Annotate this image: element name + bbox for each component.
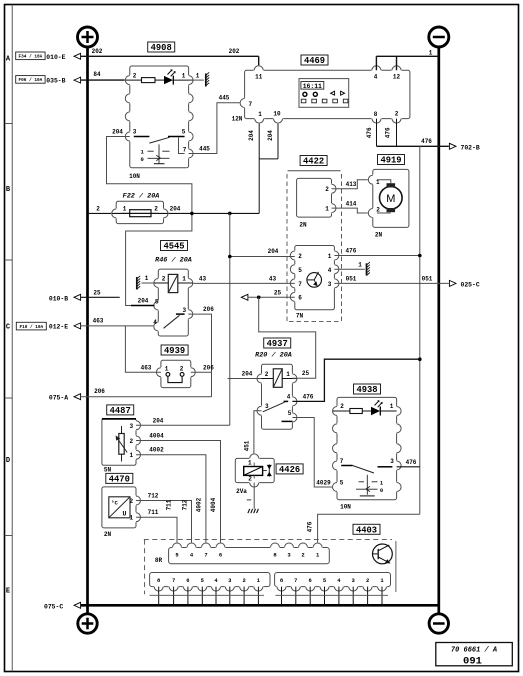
plus bus wire [86,47,89,615]
svg-text:445: 445 [199,145,210,152]
svg-text:C: C [6,324,10,332]
svg-text:204: 204 [267,130,274,141]
svg-text:2N: 2N [375,231,383,238]
svg-text:1: 1 [129,452,133,459]
svg-text:010-E: 010-E [46,54,65,61]
arrow 025-C [449,280,456,286]
svg-text:4: 4 [287,394,291,401]
wire 204 main run [192,212,259,214]
4938 internal resistor [333,410,350,412]
svg-text:F06 / 10A: F06 / 10A [19,78,43,83]
svg-text:6: 6 [219,552,222,559]
4545 coil [154,282,168,284]
4937 box [262,364,293,429]
svg-text:1: 1 [145,275,149,282]
svg-text:010-B: 010-B [49,295,68,302]
4545 switch blade [164,315,180,328]
svg-text:204: 204 [170,206,181,213]
svg-text:2Va: 2Va [236,488,247,495]
wire 476 vertical [419,146,421,514]
component 4937 label [264,338,291,348]
4919 motor [380,187,403,210]
wire 4002 [136,455,206,548]
wire 4029 from 4937 pin5 [292,418,337,488]
svg-text:4937: 4937 [267,339,288,349]
svg-text:711: 711 [166,499,173,510]
component 4545 label [161,241,188,251]
svg-text:F22 / 20A: F22 / 20A [123,192,160,200]
svg-text:2: 2 [298,253,302,260]
svg-text:4002: 4002 [149,447,164,454]
wire 476 from 4938 pin3 [397,466,420,468]
svg-text:5N: 5N [104,467,112,474]
minus terminal bottom [429,614,448,633]
svg-text:F34 / 10A: F34 / 10A [19,55,43,60]
svg-text:43: 43 [269,275,277,282]
ground bus wire [81,604,439,607]
4426 ground wire [253,483,255,509]
svg-text:202: 202 [92,48,103,55]
wire 4004 [136,441,221,548]
wire 451 from 4937 pin3 [254,411,262,459]
svg-text:2: 2 [154,206,158,213]
svg-text:476: 476 [421,138,432,145]
ground wires row2 left [158,587,160,606]
svg-text:6: 6 [309,577,312,584]
svg-text:5: 5 [340,480,344,487]
4939 box [161,360,191,387]
svg-text:6: 6 [186,577,189,584]
arrow 012-E [74,323,81,329]
wire 25 to 4937 pin1 [259,297,316,378]
svg-text:7: 7 [204,552,207,559]
svg-text:2: 2 [340,403,344,410]
wire 206 to 4939 pin2 [191,371,212,373]
svg-text:4: 4 [328,267,332,274]
svg-text:2: 2 [395,110,399,117]
wire 476 pins 8,2 down [377,119,397,147]
wire 445 [189,103,245,154]
wire 43 [188,282,294,284]
svg-text:5: 5 [298,267,302,274]
4939 link [166,373,170,377]
wire 204 vertical drop [229,213,231,425]
svg-text:°C: °C [111,500,118,507]
svg-text:4908: 4908 [151,43,172,53]
minus bus wire [437,47,440,615]
svg-text:075-C: 075-C [44,603,63,610]
4545 contact stub pin3 [176,313,185,315]
4422 boundary [288,170,341,172]
4403 row2 connector left [150,573,270,587]
fuse tag F06/10A [16,76,45,84]
title block [436,643,513,666]
4908 switch blade [149,137,169,143]
arrow 075-C [74,602,81,608]
4403 boundary [144,539,392,541]
svg-text:4426: 4426 [279,465,300,475]
svg-text:4029: 4029 [316,480,331,487]
svg-text:4545: 4545 [163,242,184,252]
svg-text:463: 463 [141,364,152,371]
4403 row1 connector [169,548,330,564]
wire 476 elbow to 4403 [318,514,420,547]
4937 contact 4 stub [284,400,289,402]
wire 25 stub [81,296,120,298]
component 4487 label [107,405,134,415]
wire 414 [332,208,373,213]
ground wires row2 right [281,587,283,606]
plus terminal bottom [78,614,97,633]
svg-text:476: 476 [406,459,417,466]
svg-text:4470: 4470 [109,474,130,484]
svg-text:4: 4 [374,74,378,81]
4470 symbol [109,497,130,518]
svg-text:84: 84 [93,71,101,78]
4426 box [235,458,274,482]
svg-text:051: 051 [346,275,357,282]
svg-text:0: 0 [380,487,383,494]
4938 switch blade [353,466,375,474]
wire 711 [136,517,177,547]
svg-text:16:11: 16:11 [303,83,322,90]
svg-text:70 6661 / A: 70 6661 / A [451,646,497,654]
svg-text:2: 2 [248,476,252,483]
svg-text:4938: 4938 [356,385,377,395]
svg-text:4469: 4469 [304,56,325,66]
svg-text:2N: 2N [299,221,307,228]
wire 476 to 702-B [377,145,449,147]
svg-text:3: 3 [328,281,332,288]
svg-text:D: D [6,457,10,465]
svg-text:202: 202 [229,48,240,55]
plus terminal top [78,27,98,47]
4908 pin1 screen wire [189,79,204,81]
svg-text:451: 451 [244,440,251,451]
4937 contact 5 stub [282,420,293,422]
4487 potentiometer symbol [121,426,123,434]
fuse tag F10/10A [16,322,46,330]
svg-text:4487: 4487 [110,406,131,416]
svg-text:R20 / 20A: R20 / 20A [255,351,292,359]
4545 contact stub 204 [131,305,155,307]
svg-text:204: 204 [248,130,255,141]
4403 transistor symbol [373,544,393,564]
4426 coil [253,463,255,467]
wire 463 to 4939 [125,326,160,372]
svg-text:025-C: 025-C [461,281,480,288]
svg-text:476: 476 [303,393,314,400]
svg-text:R46 / 20A: R46 / 20A [155,256,192,264]
arrow 075-A [74,394,81,400]
svg-text:4919: 4919 [380,156,401,166]
svg-text:7: 7 [294,577,297,584]
svg-text:12N: 12N [232,116,243,123]
svg-text:10N: 10N [340,503,351,510]
wire 051 [334,282,448,284]
component 4919 box [378,155,405,165]
svg-text:1: 1 [248,459,252,466]
component 4469 box [301,55,328,65]
svg-text:8R: 8R [155,557,163,564]
clock pin4 screen [334,268,364,270]
wire 84 [81,79,130,81]
svg-text:1: 1 [165,366,169,373]
4470 box [102,487,136,528]
svg-text:2: 2 [265,371,269,378]
wire 204 to 4908 pin3 [107,137,192,306]
4908 link 5-7 [179,138,185,154]
wire 204 from 4487 pin3 [136,424,230,426]
svg-text:413: 413 [346,181,357,188]
svg-text:7: 7 [248,101,252,108]
component 4403 label [353,524,380,534]
svg-text:204: 204 [112,129,123,136]
component 4908 box [148,42,175,52]
svg-text:10N: 10N [129,173,140,180]
svg-text:4004: 4004 [210,497,217,512]
svg-text:2N: 2N [104,531,112,538]
svg-text:5: 5 [182,128,186,135]
4908 internal LED [164,76,173,84]
4908 switch contact 3 [134,136,150,138]
svg-text:1: 1 [429,50,433,57]
svg-text:1: 1 [196,72,200,79]
svg-text:4004: 4004 [149,433,164,440]
4938 box [337,397,397,499]
svg-text:2: 2 [180,366,184,373]
4937 coil [257,378,273,380]
4422 connector 2N box [297,178,332,217]
svg-text:3: 3 [129,423,133,430]
svg-text:1: 1 [182,275,186,282]
svg-text:3: 3 [133,128,137,135]
component 4938 label [354,384,381,394]
svg-text:3: 3 [390,458,394,465]
svg-text:476: 476 [384,127,391,138]
4938 internal LED [371,407,380,415]
wire 463 [81,325,159,327]
4545 coil screen wire [142,282,155,284]
svg-text:1: 1 [123,206,127,213]
svg-text:204: 204 [242,370,253,377]
svg-text:414: 414 [346,200,357,207]
svg-text:204: 204 [138,298,149,305]
svg-text:1: 1 [286,371,290,378]
wire 202 [81,55,259,57]
svg-text:2: 2 [129,438,133,445]
svg-text:10: 10 [273,110,281,117]
svg-text:M: M [386,193,395,205]
wire 25 to clock pin6 [241,294,248,300]
4469 display panel [299,79,349,108]
svg-text:1: 1 [182,72,186,79]
svg-text:2: 2 [242,577,245,584]
svg-text:7: 7 [172,577,175,584]
svg-text:7: 7 [298,281,302,288]
svg-text:7N: 7N [296,312,304,319]
svg-text:051: 051 [422,275,433,282]
svg-text:476: 476 [366,127,373,138]
svg-text:476: 476 [346,248,357,255]
svg-text:1: 1 [328,253,332,260]
svg-text:7: 7 [340,458,344,465]
wire 204 to 4937 pin2 [228,378,262,380]
svg-text:2: 2 [376,206,380,213]
svg-text:075-A: 075-A [49,395,68,402]
svg-text:091: 091 [463,655,482,667]
component 4426 label [276,464,303,474]
4938 position symbol [366,475,368,495]
arrow 702-B [449,143,456,149]
wire 204 riser to 4469 [259,119,278,214]
svg-text:3: 3 [182,307,186,314]
svg-text:4: 4 [153,319,157,326]
svg-text:206: 206 [203,306,214,313]
svg-text:2: 2 [133,72,137,79]
svg-text:711: 711 [148,509,159,516]
4403 row2 connector right [275,573,391,587]
component 4939 label [161,345,188,355]
component 4470 label [106,473,133,483]
svg-text:204: 204 [153,417,164,424]
svg-text:4002: 4002 [196,497,203,512]
ground symbol 4426 [248,509,250,513]
svg-text:1: 1 [258,111,262,118]
4938 switch contact 7 [341,465,352,467]
minus terminal top [429,27,449,47]
svg-text:206: 206 [94,388,105,395]
svg-text:2: 2 [162,275,166,282]
svg-text:7: 7 [183,147,187,154]
fuse tag F34/10A [16,52,45,60]
svg-text:476: 476 [307,521,314,532]
arrow 010-B [74,294,81,300]
svg-text:204: 204 [268,248,279,255]
svg-text:2: 2 [325,186,329,193]
wire 712 [136,501,192,548]
svg-text:702-B: 702-B [461,144,480,151]
svg-text:1: 1 [325,205,329,212]
4487 box [102,419,136,466]
svg-text:6: 6 [298,295,302,302]
wire 204 to clock pin2 [230,256,295,258]
svg-text:25: 25 [274,289,282,296]
4908 switch contact 5 [168,136,185,138]
svg-text:035-B: 035-B [46,77,65,84]
svg-text:445: 445 [219,94,230,101]
svg-text:712: 712 [148,493,159,500]
svg-text:2: 2 [366,577,369,584]
svg-text:F10 / 10A: F10 / 10A [19,325,43,330]
wire 476 from 4937 pin4 [292,359,419,401]
svg-text:2: 2 [96,206,100,213]
4938 switch contact 3 [378,466,393,468]
svg-text:4422: 4422 [303,157,324,167]
svg-text:5: 5 [288,410,292,417]
wire 206 bottom left [81,396,212,398]
screen symbol near 4908 [205,74,207,87]
4422 clock box 7N [295,246,335,310]
svg-text:206: 206 [203,364,214,371]
4908 internal resistor [126,79,142,81]
svg-text:12: 12 [393,74,401,81]
svg-text:0: 0 [141,156,144,163]
arrow 035-B [74,77,81,83]
wire 206 from 4545 pin3 [188,314,211,397]
svg-text:25: 25 [93,290,101,297]
svg-text:4403: 4403 [356,525,377,535]
component 4422 label [300,156,327,166]
svg-text:43: 43 [199,275,207,282]
svg-text:25: 25 [302,370,310,377]
wire pin4/12 to minus [376,56,438,70]
svg-text:8: 8 [374,111,378,118]
svg-text:1: 1 [358,261,362,268]
4426 sounder symbol [268,464,270,476]
4937 switch blade [263,402,285,412]
svg-text:012-E: 012-E [49,324,68,331]
junction fuse output [190,212,194,216]
arrow 010-E [74,53,81,59]
svg-text:5: 5 [155,298,159,305]
svg-text:U: U [123,511,127,518]
wire 476 clock pin1 [334,255,419,257]
svg-text:E: E [6,588,10,596]
clock face symbol [307,273,322,288]
wire 413 [332,180,373,189]
svg-text:11: 11 [255,74,263,81]
svg-text:2: 2 [301,552,304,559]
svg-text:712: 712 [181,499,188,510]
svg-text:4939: 4939 [164,346,185,356]
svg-text:1: 1 [390,403,394,410]
svg-text:463: 463 [93,318,104,325]
4545 box [158,269,188,336]
